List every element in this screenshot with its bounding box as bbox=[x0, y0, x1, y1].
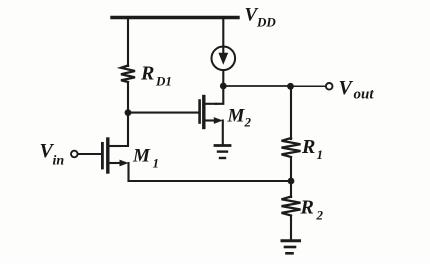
label Vin bbox=[40, 140, 65, 169]
svg-text:1: 1 bbox=[317, 147, 324, 162]
svg-text:M: M bbox=[132, 146, 151, 167]
label R1 bbox=[301, 136, 323, 162]
svg-text:R: R bbox=[300, 197, 314, 219]
wire: M1 source to feedback node D bbox=[129, 163, 292, 181]
wire: rail to RD1 top bbox=[127, 18, 129, 67]
svg-text:2: 2 bbox=[244, 115, 252, 130]
svg-text:V: V bbox=[339, 77, 354, 99]
label Vout bbox=[339, 77, 375, 103]
svg-text:D1: D1 bbox=[155, 74, 172, 89]
current source I1 bbox=[212, 47, 236, 71]
wire: current source to node B bbox=[222, 70, 224, 86]
output terminal Vout bbox=[326, 83, 333, 90]
label M1 bbox=[132, 146, 159, 171]
node B junction bbox=[220, 83, 227, 90]
wire: node D to R2 top bbox=[290, 181, 292, 197]
transistor M2 bbox=[200, 97, 223, 128]
wire: node C to R1 top bbox=[290, 86, 292, 139]
svg-text:2: 2 bbox=[316, 208, 324, 223]
svg-text:in: in bbox=[53, 154, 65, 169]
wire: node A to M2 gate bbox=[128, 112, 198, 114]
label R2 bbox=[300, 197, 324, 223]
VDD supply rail bbox=[112, 16, 238, 19]
wire: Vin terminal to M1 gate bbox=[78, 153, 101, 155]
ground (R2) bbox=[282, 241, 300, 254]
input terminal Vin bbox=[71, 151, 78, 158]
wire: rail to current source bbox=[222, 18, 224, 47]
wire: M2 source to ground bbox=[222, 121, 224, 145]
svg-text:R: R bbox=[140, 63, 154, 85]
resistor RD1 bbox=[121, 66, 135, 83]
label RD1 bbox=[140, 63, 172, 89]
ground (M2 source) bbox=[215, 146, 230, 159]
resistor R2 bbox=[282, 197, 301, 216]
wire: R2 bottom to ground bbox=[290, 216, 292, 241]
node D junction bbox=[288, 178, 295, 185]
wire: M2 drain to node B bbox=[216, 86, 223, 104]
label M2 bbox=[227, 106, 252, 130]
svg-text:R: R bbox=[301, 136, 315, 158]
transistor M1 bbox=[102, 139, 128, 172]
svg-text:1: 1 bbox=[153, 156, 160, 171]
wire: node B to node C bbox=[223, 85, 290, 87]
wire: RD1 bottom to M1 drain corner bbox=[109, 82, 128, 146]
node A junction bbox=[125, 109, 132, 116]
VDD label bbox=[245, 5, 277, 30]
resistor R1 bbox=[282, 138, 301, 157]
node C junction bbox=[287, 83, 294, 90]
wire: R1 bottom to node D bbox=[290, 157, 292, 181]
wire: node C to Vout terminal bbox=[291, 85, 326, 87]
svg-text:DD: DD bbox=[256, 15, 276, 30]
svg-text:out: out bbox=[354, 87, 375, 103]
svg-text:M: M bbox=[227, 106, 246, 127]
